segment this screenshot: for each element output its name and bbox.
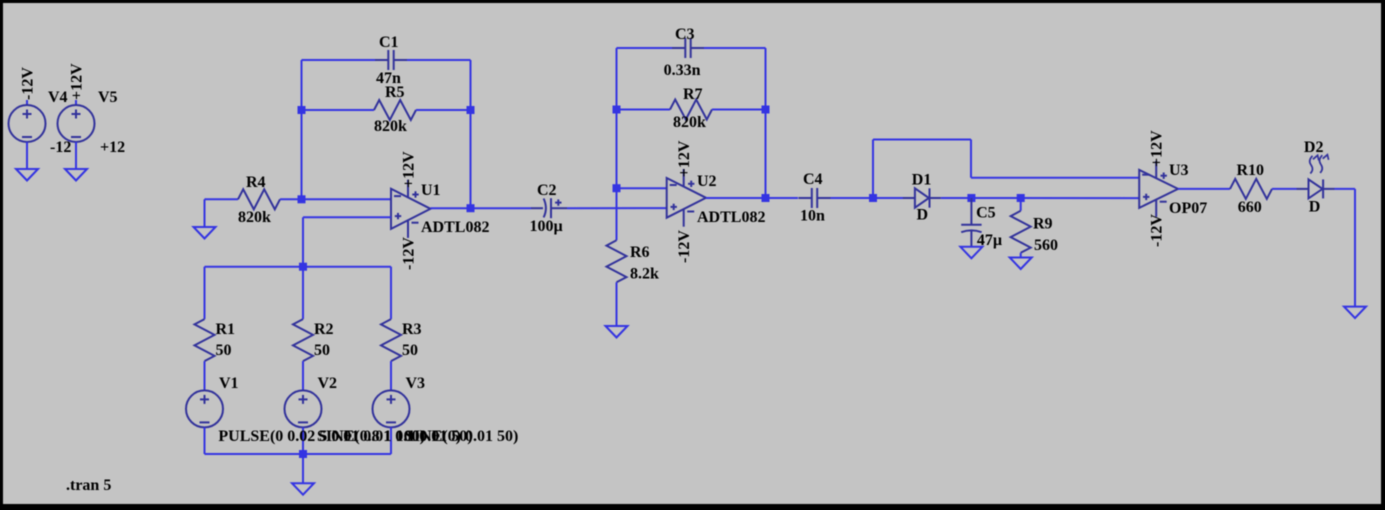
svg-text:660: 660 <box>1238 199 1262 216</box>
ground D2 <box>1344 307 1366 319</box>
wire feedback to U3 <box>873 140 1139 199</box>
resistor R1 <box>195 319 215 361</box>
voltage source V4 <box>9 100 46 169</box>
svg-text:R3: R3 <box>402 321 422 338</box>
svg-text:R4: R4 <box>246 174 266 191</box>
svg-text:50: 50 <box>216 342 232 359</box>
capacitor C5 (polarized) <box>961 198 981 247</box>
ground V5 <box>65 169 87 181</box>
wire C4 to D1 <box>831 197 904 199</box>
wire U2 feedback right column <box>765 48 767 198</box>
svg-text:-12V: -12V <box>1149 214 1166 247</box>
svg-text:D: D <box>917 206 929 223</box>
svg-text:-12V: -12V <box>676 230 693 263</box>
svg-text:0.33n: 0.33n <box>664 62 701 79</box>
svg-text:V1: V1 <box>219 375 239 392</box>
svg-text:+12: +12 <box>100 139 125 156</box>
resistor R6 <box>607 240 627 282</box>
svg-text:R5: R5 <box>385 84 405 101</box>
svg-text:OP07: OP07 <box>1169 200 1207 217</box>
LED D2 arrows <box>1310 156 1313 174</box>
resistor R4 <box>205 189 302 209</box>
wire input rail <box>205 266 392 268</box>
voltage source V1 <box>186 390 223 427</box>
junction U2 inverting node <box>613 184 621 192</box>
svg-text:U3: U3 <box>1169 162 1189 179</box>
wire node to R6 <box>616 188 618 240</box>
svg-text:.tran 5: .tran 5 <box>66 477 111 494</box>
wire D2 to ground <box>1335 188 1356 190</box>
svg-text:ADTL082: ADTL082 <box>697 209 765 226</box>
resistor R7 <box>617 100 766 120</box>
op-amp U3 <box>1139 161 1178 217</box>
wire R4 to ground <box>204 199 206 227</box>
svg-text:D: D <box>1309 199 1321 216</box>
resistor R5 <box>302 100 471 120</box>
wire V2 lower <box>302 427 304 454</box>
svg-text:820k: 820k <box>374 118 407 135</box>
resistor R2 <box>293 319 313 361</box>
wire R10 to D2 <box>1272 188 1297 190</box>
wire R3 to V3 <box>390 361 392 390</box>
voltage source V2 <box>285 390 322 427</box>
ground bottom rail <box>292 483 314 495</box>
wire branch 3 upper <box>390 267 392 319</box>
wire R1 to V1 <box>204 361 206 390</box>
capacitor C3 <box>617 38 766 58</box>
junction R7 left <box>613 106 621 114</box>
svg-text:R1: R1 <box>216 321 236 338</box>
junction R5 right <box>467 106 475 114</box>
wire C2 to U2 plus input <box>567 207 667 209</box>
svg-text:R9: R9 <box>1033 215 1053 232</box>
wire U3 output <box>1178 188 1230 190</box>
svg-text:820k: 820k <box>238 209 271 226</box>
junction input rail <box>299 263 307 271</box>
svg-text:R10: R10 <box>1237 162 1265 179</box>
svg-text:+12V: +12V <box>1149 130 1166 167</box>
op-amp U1 <box>391 180 431 238</box>
resistor R3 <box>381 319 401 361</box>
svg-text:V4: V4 <box>48 89 68 106</box>
junction U2 output <box>762 194 770 202</box>
svg-text:10n: 10n <box>800 208 825 225</box>
wire U2 inverting input <box>617 187 667 189</box>
wire R4 junction to U1 inverting input <box>302 198 392 200</box>
junction D1 left <box>869 194 877 202</box>
svg-text:SINE(0) 0.01 50): SINE(0) 0.01 50) <box>405 428 518 445</box>
junction R5 left <box>298 106 306 114</box>
svg-text:C1: C1 <box>379 34 399 51</box>
ground R6 <box>606 326 628 338</box>
svg-text:D1: D1 <box>912 172 932 189</box>
svg-text:50: 50 <box>314 342 330 359</box>
wire D1 to C5 R9 U3 <box>941 197 1139 199</box>
resistor R10 <box>1230 179 1272 199</box>
junction R7 right <box>762 106 770 114</box>
wire V3 lower <box>390 427 392 454</box>
wire feedback right column <box>470 60 472 208</box>
svg-text:V5: V5 <box>98 89 118 106</box>
ground C5 <box>960 247 982 258</box>
junction R4 node <box>298 195 306 203</box>
op-amp U2 <box>667 169 706 227</box>
capacitor C1 <box>302 50 471 70</box>
svg-text:R6: R6 <box>630 244 650 261</box>
LED D2 <box>1297 188 1309 190</box>
wire bottom rail <box>205 453 392 455</box>
resistor R9 <box>1011 198 1031 258</box>
svg-text:C4: C4 <box>803 171 823 188</box>
svg-text:+12V: +12V <box>69 63 86 100</box>
ground R9 <box>1010 258 1032 270</box>
wire R6 to ground <box>616 282 618 326</box>
ground R4 <box>194 227 216 239</box>
svg-text:U2: U2 <box>697 173 717 190</box>
svg-text:8.2k: 8.2k <box>630 266 659 283</box>
svg-text:U1: U1 <box>421 182 441 199</box>
wire U2 output <box>706 197 798 199</box>
svg-text:820k: 820k <box>673 114 706 131</box>
wire rail to ground <box>302 454 304 483</box>
junction bottom rail <box>299 450 307 458</box>
svg-text:ADTL082: ADTL082 <box>421 219 489 236</box>
wire branch 2 upper <box>302 267 304 319</box>
svg-text:C5: C5 <box>976 205 996 222</box>
capacitor C2 (polarized) <box>531 198 567 218</box>
svg-text:-12V: -12V <box>401 237 418 270</box>
svg-text:+12V: +12V <box>401 151 418 188</box>
diode D1 <box>903 197 915 199</box>
junction C5 <box>967 194 975 202</box>
svg-text:D2: D2 <box>1304 139 1324 156</box>
svg-text:50: 50 <box>402 342 418 359</box>
svg-text:-12: -12 <box>50 139 71 156</box>
ground V4 <box>16 169 38 181</box>
junction U1 output <box>467 204 475 212</box>
voltage source V3 <box>373 390 410 427</box>
wire R2 to V2 <box>302 361 304 390</box>
wire node A vertical <box>301 60 303 199</box>
wire U1 plus input <box>303 216 391 218</box>
svg-text:V3: V3 <box>406 375 426 392</box>
junction R9 <box>1017 194 1025 202</box>
svg-text:C2: C2 <box>537 182 557 199</box>
wire branch 1 upper <box>204 267 206 319</box>
wire V1 lower <box>204 427 206 454</box>
wire U2 feedback left column <box>616 48 618 188</box>
svg-text:R7: R7 <box>683 86 703 103</box>
capacitor C4 <box>799 197 812 199</box>
svg-text:R2: R2 <box>314 321 334 338</box>
svg-text:560: 560 <box>1034 237 1058 254</box>
svg-text:-12V: -12V <box>20 67 37 100</box>
svg-text:100µ: 100µ <box>530 218 563 235</box>
svg-text:+12V: +12V <box>676 140 693 177</box>
svg-text:C3: C3 <box>675 26 695 43</box>
voltage source V5 <box>58 100 95 169</box>
svg-text:V2: V2 <box>318 375 338 392</box>
wire U1 output <box>431 207 532 209</box>
